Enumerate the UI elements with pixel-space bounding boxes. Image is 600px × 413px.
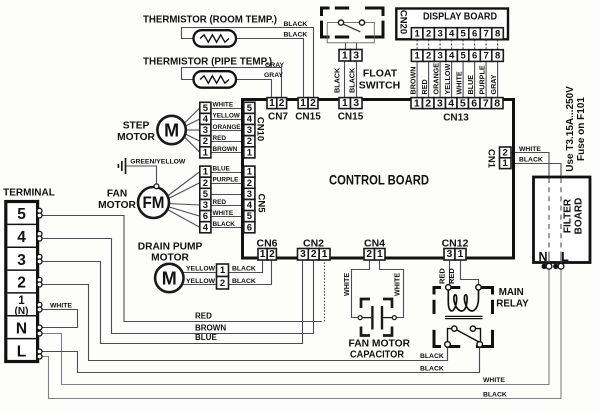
svg-text:YELLOW: YELLOW [186, 265, 216, 272]
svg-text:BLUE: BLUE [213, 165, 231, 172]
svg-text:MOTOR: MOTOR [98, 200, 136, 211]
svg-text:YELLOW: YELLOW [213, 113, 241, 120]
svg-text:1: 1 [269, 98, 275, 109]
svg-text:FILTERBOARD: FILTERBOARD [563, 198, 585, 235]
svg-text:6: 6 [471, 98, 477, 110]
svg-text:PURPLE: PURPLE [213, 177, 240, 184]
svg-text:3: 3 [447, 249, 453, 260]
svg-text:CN20: CN20 [397, 10, 408, 34]
svg-text:5: 5 [247, 103, 253, 114]
svg-text:CN6: CN6 [256, 238, 277, 250]
svg-text:2: 2 [203, 178, 208, 189]
svg-text:5: 5 [203, 103, 209, 114]
svg-text:2: 2 [311, 249, 317, 260]
svg-text:2: 2 [269, 249, 275, 260]
svg-text:7: 7 [483, 29, 488, 40]
svg-text:5: 5 [460, 98, 466, 110]
svg-text:L: L [17, 343, 26, 360]
svg-text:3: 3 [17, 252, 26, 269]
svg-text:CN15: CN15 [295, 112, 321, 123]
svg-text:FLOAT: FLOAT [363, 68, 398, 80]
svg-text:CN5: CN5 [256, 193, 267, 213]
svg-text:7: 7 [483, 98, 489, 110]
svg-text:4: 4 [17, 229, 26, 246]
svg-text:WHITE: WHITE [342, 273, 351, 296]
svg-text:3: 3 [247, 125, 252, 136]
svg-text:BLACK: BLACK [284, 31, 308, 38]
svg-text:SWITCH: SWITCH [359, 80, 400, 92]
svg-text:WHITE: WHITE [392, 273, 401, 296]
svg-text:BROWN: BROWN [213, 146, 238, 153]
svg-text:BLACK: BLACK [483, 392, 507, 399]
svg-text:GRAY: GRAY [265, 62, 284, 69]
svg-text:ORANGE: ORANGE [431, 63, 440, 95]
svg-text:BLACK: BLACK [519, 157, 543, 164]
svg-text:N: N [538, 250, 547, 264]
svg-text:1: 1 [414, 29, 420, 40]
svg-text:RED: RED [438, 268, 447, 284]
svg-text:BLACK: BLACK [232, 265, 256, 272]
svg-text:TERMINAL: TERMINAL [3, 187, 55, 198]
svg-text:5: 5 [460, 51, 466, 62]
svg-text:BLACK: BLACK [284, 21, 308, 28]
svg-text:BROWN: BROWN [408, 67, 417, 95]
svg-text:2: 2 [17, 275, 26, 292]
svg-text:CN10: CN10 [255, 117, 266, 141]
svg-text:5: 5 [460, 29, 466, 40]
svg-text:2: 2 [426, 29, 431, 40]
svg-text:3: 3 [203, 200, 208, 211]
svg-text:CN4: CN4 [364, 238, 385, 250]
svg-text:2: 2 [425, 98, 431, 110]
svg-text:2: 2 [220, 278, 225, 289]
svg-text:YELLOW: YELLOW [443, 64, 452, 95]
svg-text:CN13: CN13 [443, 112, 469, 123]
svg-text:2: 2 [247, 178, 252, 189]
svg-text:Use T3.15A...250VFuse on F101: Use T3.15A...250VFuse on F101 [565, 86, 587, 172]
svg-text:(N): (N) [15, 306, 29, 317]
svg-text:4: 4 [449, 51, 455, 62]
svg-text:8: 8 [495, 51, 500, 62]
svg-text:7: 7 [483, 51, 488, 62]
svg-text:1: 1 [342, 98, 348, 109]
svg-text:RED: RED [213, 199, 227, 206]
svg-text:RED: RED [420, 79, 429, 94]
svg-text:MAIN: MAIN [499, 287, 524, 298]
svg-text:DRAIN PUMP: DRAIN PUMP [138, 242, 203, 253]
svg-text:4: 4 [247, 114, 253, 125]
svg-text:WHITE: WHITE [483, 377, 505, 384]
svg-text:RED: RED [213, 135, 227, 142]
svg-text:1: 1 [414, 98, 420, 110]
svg-text:CAPACITOR: CAPACITOR [350, 350, 405, 361]
svg-text:WHITE: WHITE [213, 210, 234, 217]
svg-text:3: 3 [353, 98, 359, 109]
svg-text:M: M [164, 121, 179, 141]
svg-text:4: 4 [203, 114, 209, 125]
svg-text:8: 8 [495, 29, 500, 40]
svg-text:WHITE: WHITE [454, 71, 463, 94]
svg-text:WHITE: WHITE [50, 303, 72, 310]
svg-text:6: 6 [472, 51, 477, 62]
svg-text:1: 1 [503, 158, 509, 169]
svg-text:4: 4 [449, 29, 455, 40]
svg-text:GREEN/YELLOW: GREEN/YELLOW [130, 158, 186, 165]
svg-text:1: 1 [414, 51, 420, 62]
svg-text:WHITE: WHITE [213, 102, 234, 109]
svg-text:2: 2 [503, 147, 508, 158]
svg-text:STEP: STEP [123, 120, 150, 131]
svg-text:PURPLE: PURPLE [477, 65, 486, 94]
svg-text:1: 1 [247, 167, 253, 178]
svg-text:CN1: CN1 [486, 149, 497, 169]
svg-text:1: 1 [220, 265, 226, 276]
svg-text:3: 3 [203, 125, 208, 136]
svg-text:1: 1 [203, 167, 209, 178]
svg-text:YELLOW: YELLOW [186, 278, 216, 285]
svg-text:DISPLAY BOARD: DISPLAY BOARD [423, 12, 497, 23]
svg-text:2: 2 [426, 51, 431, 62]
svg-text:FAN MOTOR: FAN MOTOR [349, 339, 411, 350]
svg-text:BLACK: BLACK [332, 67, 341, 93]
svg-text:RED: RED [447, 268, 456, 284]
svg-text:BLACK: BLACK [213, 221, 236, 228]
svg-text:M: M [162, 269, 177, 289]
svg-text:3: 3 [300, 249, 306, 260]
svg-text:BLACK: BLACK [420, 353, 444, 360]
svg-text:N: N [16, 320, 27, 337]
svg-text:BLACK: BLACK [348, 67, 357, 93]
svg-text:4: 4 [203, 222, 209, 233]
svg-text:CN12: CN12 [442, 238, 469, 250]
svg-text:WHITE: WHITE [519, 146, 541, 153]
svg-text:BLACK: BLACK [420, 365, 444, 372]
svg-text:1: 1 [260, 249, 266, 260]
svg-text:5: 5 [247, 211, 253, 222]
svg-text:3: 3 [247, 189, 252, 200]
svg-text:1: 1 [377, 249, 383, 260]
svg-text:THERMISTOR (ROOM TEMP.): THERMISTOR (ROOM TEMP.) [143, 14, 277, 26]
svg-text:1: 1 [458, 249, 464, 260]
svg-text:RED: RED [195, 312, 212, 321]
svg-text:6: 6 [472, 29, 477, 40]
svg-text:RELAY: RELAY [496, 299, 529, 310]
svg-text:1: 1 [342, 50, 348, 62]
svg-text:CN7: CN7 [268, 112, 288, 123]
svg-text:4: 4 [448, 98, 454, 110]
svg-text:FM: FM [143, 194, 165, 212]
svg-text:1: 1 [300, 98, 306, 109]
svg-text:BLUE: BLUE [195, 333, 217, 342]
svg-text:2: 2 [310, 98, 316, 109]
svg-text:GRAY: GRAY [264, 72, 283, 79]
svg-text:ORANGE: ORANGE [213, 124, 242, 131]
svg-text:BROWN: BROWN [195, 324, 226, 333]
svg-text:CN15: CN15 [338, 112, 364, 123]
svg-text:BLACK: BLACK [232, 278, 256, 285]
svg-text:MOTOR: MOTOR [117, 132, 155, 143]
svg-text:5: 5 [17, 206, 26, 223]
svg-text:1: 1 [18, 295, 25, 307]
svg-text:3: 3 [353, 50, 359, 62]
svg-text:CN2: CN2 [303, 238, 324, 250]
svg-text:6: 6 [203, 211, 208, 222]
svg-text:2: 2 [366, 249, 372, 260]
svg-text:L: L [561, 250, 569, 264]
svg-text:8: 8 [494, 98, 500, 110]
svg-text:1: 1 [322, 249, 328, 260]
svg-text:3: 3 [437, 98, 443, 110]
svg-text:GRAY: GRAY [489, 74, 498, 94]
svg-text:MOTOR: MOTOR [151, 252, 189, 263]
svg-text:THERMISTOR (PIPE TEMP.): THERMISTOR (PIPE TEMP.) [143, 56, 272, 68]
svg-text:3: 3 [437, 51, 442, 62]
svg-text:1: 1 [247, 147, 253, 158]
svg-text:BLUE: BLUE [466, 75, 475, 95]
svg-text:3: 3 [437, 29, 442, 40]
svg-text:FAN: FAN [107, 189, 127, 200]
svg-text:2: 2 [247, 136, 252, 147]
svg-text:5: 5 [203, 189, 209, 200]
svg-text:2: 2 [279, 98, 285, 109]
svg-text:2: 2 [203, 136, 208, 147]
svg-text:1: 1 [203, 147, 209, 158]
svg-text:6: 6 [247, 222, 252, 233]
svg-text:4: 4 [247, 200, 253, 211]
svg-text:CONTROL BOARD: CONTROL BOARD [329, 173, 429, 188]
